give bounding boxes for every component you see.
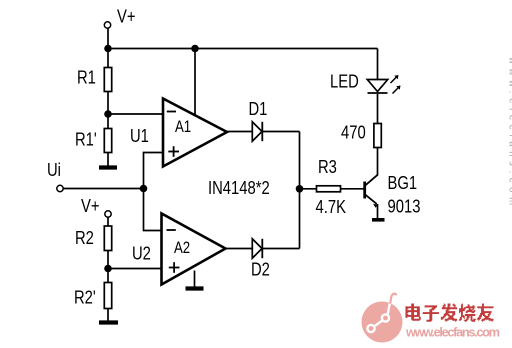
svg-text:4.7K: 4.7K xyxy=(316,196,346,217)
svg-text:470: 470 xyxy=(341,122,366,143)
svg-text:Ui: Ui xyxy=(47,159,61,180)
svg-text:LED: LED xyxy=(330,71,359,92)
svg-text:R1': R1' xyxy=(75,129,97,150)
svg-text:U2: U2 xyxy=(132,243,151,264)
svg-text:V+: V+ xyxy=(117,6,136,27)
svg-text:R1: R1 xyxy=(77,67,96,88)
svg-text:V+: V+ xyxy=(81,195,100,216)
svg-text:D2: D2 xyxy=(251,259,270,280)
svg-text:A2: A2 xyxy=(174,239,190,258)
svg-text:U1: U1 xyxy=(130,125,149,146)
svg-text:R2': R2' xyxy=(74,287,96,308)
svg-text:D1: D1 xyxy=(249,98,268,119)
svg-text:R2: R2 xyxy=(75,227,94,248)
svg-text:R3: R3 xyxy=(318,156,337,177)
svg-text:A1: A1 xyxy=(175,118,191,137)
svg-text:BG1: BG1 xyxy=(388,172,418,193)
svg-text:www.elecfans.com: www.elecfans.com xyxy=(507,56,512,205)
svg-text:IN4148*2: IN4148*2 xyxy=(208,177,270,198)
svg-text:www.elecfans.com: www.elecfans.com xyxy=(405,325,500,340)
svg-text:9013: 9013 xyxy=(388,196,421,217)
